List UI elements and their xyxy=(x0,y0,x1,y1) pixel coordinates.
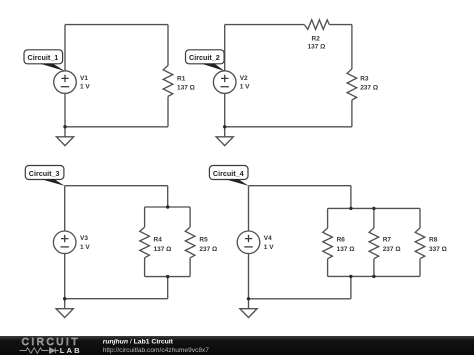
svg-text:Circuit_3: Circuit_3 xyxy=(29,169,60,178)
junction dot C3 parallel bottom xyxy=(166,275,169,278)
voltage source V4 xyxy=(237,231,260,254)
junction dot C3 ground node xyxy=(63,297,66,300)
svg-text:http://circuitlab.com/c4zhume9: http://circuitlab.com/c4zhume9vc8x7 xyxy=(103,347,210,354)
wire left-upper C2 xyxy=(224,25,226,71)
resistor R5 xyxy=(185,227,195,258)
node flag Circuit_1 xyxy=(24,50,65,71)
junction dot C3 parallel top xyxy=(166,205,169,208)
ground C4 xyxy=(240,309,257,318)
voltage source V1 xyxy=(54,71,77,94)
resistor R6 xyxy=(323,228,333,259)
svg-text:R6: R6 xyxy=(337,237,346,244)
wire bottom C2 xyxy=(225,126,352,128)
node flag Circuit_2 xyxy=(186,50,225,71)
wire bottom C3 xyxy=(65,298,168,300)
resistor R7 xyxy=(369,228,379,259)
wire left-upper C4 xyxy=(248,186,250,231)
junction dot C4 ground node xyxy=(247,297,250,300)
wire left-lower C4 xyxy=(248,254,250,309)
wire R6 branch leads xyxy=(327,208,329,276)
svg-text:237 Ω: 237 Ω xyxy=(360,85,378,92)
wire left-upper C1 xyxy=(64,25,66,71)
svg-text:237 Ω: 237 Ω xyxy=(383,246,401,253)
wire feed down to parallel C4 xyxy=(350,186,352,209)
svg-text:R8: R8 xyxy=(429,237,438,244)
svg-text:Circuit_2: Circuit_2 xyxy=(189,53,220,62)
CircuitLab logo resistor-diode glyph xyxy=(20,348,59,354)
wire parallel bottom rail C3 xyxy=(145,276,191,278)
svg-text:R2: R2 xyxy=(312,35,321,42)
junction dot C2 ground node xyxy=(223,125,226,128)
voltage source V2 xyxy=(213,71,236,94)
wire left-upper C3 xyxy=(64,186,66,231)
wire feed from parallel to bottom C4 xyxy=(350,276,352,298)
wire R5 branch leads xyxy=(189,207,191,277)
footer background xyxy=(0,336,474,355)
wire R7 branch leads xyxy=(373,208,375,276)
wire feed down to parallel C3 xyxy=(167,186,169,207)
svg-text:Circuit_1: Circuit_1 xyxy=(28,53,59,62)
node flag Circuit_3 xyxy=(25,166,64,186)
svg-text:runjhun / Lab1 Circuit: runjhun / Lab1 Circuit xyxy=(103,339,174,346)
wire R8 branch leads xyxy=(419,208,421,276)
svg-text:237 Ω: 237 Ω xyxy=(199,246,217,253)
resistor R8 xyxy=(415,228,425,259)
wire top C4 xyxy=(249,185,351,187)
wire feed from parallel to bottom C3 xyxy=(167,277,169,299)
resistor R4 xyxy=(140,227,150,258)
svg-text:1 V: 1 V xyxy=(264,244,274,251)
wire bottom C1 xyxy=(65,126,168,128)
svg-text:137 Ω: 137 Ω xyxy=(154,246,172,253)
svg-text:LAB: LAB xyxy=(60,346,82,355)
svg-text:Circuit_4: Circuit_4 xyxy=(213,169,244,178)
svg-text:V4: V4 xyxy=(264,235,272,242)
wire top C3 xyxy=(65,185,168,187)
svg-text:337 Ω: 337 Ω xyxy=(429,246,447,253)
svg-text:R5: R5 xyxy=(199,237,208,244)
svg-text:V1: V1 xyxy=(80,75,88,82)
junction dot C4 bottom R7 xyxy=(372,275,375,278)
ground C2 xyxy=(216,137,233,146)
wire top C1 xyxy=(65,24,168,26)
resistor R2 xyxy=(304,20,329,30)
wire parallel top rail C4 xyxy=(328,207,420,209)
svg-text:R3: R3 xyxy=(360,75,369,82)
svg-text:1 V: 1 V xyxy=(240,84,250,91)
svg-text:V3: V3 xyxy=(80,235,88,242)
wire parallel top rail C3 xyxy=(145,206,191,208)
wire top-left C2 xyxy=(225,24,305,26)
wire bottom C4 xyxy=(249,298,351,300)
svg-text:R1: R1 xyxy=(177,75,186,82)
svg-text:1 V: 1 V xyxy=(80,244,90,251)
wire right-lower C2 xyxy=(351,100,353,127)
svg-text:V2: V2 xyxy=(240,75,248,82)
ground C3 xyxy=(56,309,73,318)
wire right-upper C2 xyxy=(351,25,353,69)
node flag Circuit_4 xyxy=(209,166,248,186)
svg-text:137 Ω: 137 Ω xyxy=(308,44,326,51)
wire R4 branch leads xyxy=(144,207,146,277)
svg-text:R4: R4 xyxy=(154,237,163,244)
resistor R3 xyxy=(347,69,357,100)
wire parallel bottom rail C4 xyxy=(328,275,420,277)
voltage source V3 xyxy=(53,231,76,254)
wire left-lower C1 xyxy=(64,93,66,136)
junction dot C4 bottom feed xyxy=(349,275,352,278)
svg-text:1 V: 1 V xyxy=(80,84,90,91)
resistor R1 xyxy=(163,66,173,97)
wire left-lower C2 xyxy=(224,93,226,136)
wire top-right C2 xyxy=(329,24,352,26)
svg-text:137 Ω: 137 Ω xyxy=(177,85,195,92)
wire left-lower C3 xyxy=(64,254,66,309)
svg-text:137 Ω: 137 Ω xyxy=(337,246,355,253)
svg-text:R7: R7 xyxy=(383,237,392,244)
wire right-upper C1 xyxy=(167,25,169,66)
junction dot C4 top feed xyxy=(349,207,352,210)
wire right-lower C1 xyxy=(167,96,169,126)
junction dot C4 top R7 xyxy=(372,207,375,210)
junction dot C1 ground node xyxy=(63,125,66,128)
ground C1 xyxy=(56,137,73,146)
